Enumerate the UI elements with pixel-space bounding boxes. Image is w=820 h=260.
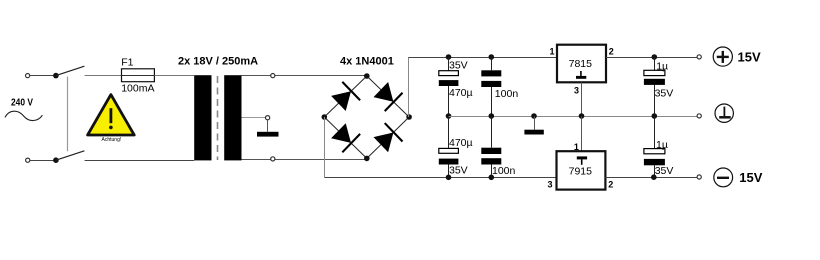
wire [654,58,656,71]
wire pin3 down [581,82,583,116]
capacitor C2 470u/35V plus plate [439,148,459,153]
svg-text:35V: 35V [655,165,674,177]
svg-text:240 V: 240 V [11,97,33,109]
bridge edge top-right [367,76,409,117]
wire pin1 7915 up [581,117,583,152]
wire [85,75,122,77]
warning triangle [88,95,135,135]
capacitor C1 minus plate [439,80,459,86]
svg-text:1: 1 [574,142,579,152]
diode D4 (bottom to right) [372,123,403,154]
wire [491,58,493,71]
node ground C5 [652,113,658,119]
bridge edge bottom-right [367,117,409,158]
wire [448,117,450,149]
wire bridge plus up [408,57,410,117]
node switch pivot top [53,73,59,79]
svg-text:35V: 35V [449,165,468,177]
switch S1b blade [56,151,85,160]
node switch pivot bottom [53,157,59,163]
node bridge bottom [364,156,370,162]
fuse F1 [122,69,155,82]
tab bar U1 [576,76,586,79]
terminal secondary top [271,74,275,78]
diode D1 (left to top) [330,82,361,113]
capacitor C6 minus plate [644,159,665,165]
diode D3 (left to bottom) [330,122,361,153]
input terminal top (L) [26,74,30,78]
wire minus rail [325,177,557,179]
svg-text:Achtung!: Achtung! [102,137,122,143]
svg-text:470µ: 470µ [449,137,473,149]
wire [654,117,656,149]
terminal center tap [266,116,270,120]
svg-text:100mA: 100mA [121,82,154,94]
diode D2 (top to right) [372,80,403,111]
capacitor C6 1u/35V plus plate [644,149,665,154]
svg-text:100n: 100n [492,165,516,177]
node bridge left [322,114,328,120]
svg-text:7915: 7915 [569,166,593,178]
node minus rail C4 [489,175,495,181]
wire plus rail [409,57,558,59]
capacitor C4 100n plate [481,148,501,154]
capacitor C5 minus plate [644,79,665,85]
wire [491,165,493,178]
svg-text:7815: 7815 [569,58,593,70]
wire minus output [605,177,697,179]
wire [448,58,450,71]
terminal ground output [697,114,701,118]
transformer secondary winding bar [224,75,241,160]
wire plus output [606,57,697,59]
svg-text:3: 3 [574,85,579,95]
capacitor C3 100n plate [481,70,501,76]
wire [267,120,269,132]
svg-text:15V: 15V [738,49,761,64]
wire [30,75,56,77]
wire secondary bottom [242,159,367,161]
svg-text:2x 18V / 250mA: 2x 18V / 250mA [178,56,258,68]
svg-text:4x 1N4001: 4x 1N4001 [340,56,394,68]
capacitor C1 470u/35V plus plate [439,71,459,76]
wire [654,85,656,117]
svg-text:3: 3 [547,180,552,190]
regulator U2 7915 box [557,151,606,189]
node ground rail C1 [446,113,452,119]
wire [85,160,195,162]
transformer primary winding bar [194,75,211,160]
node plus rail C1 [446,54,452,60]
wire center tap [242,117,266,119]
switch linkage [67,77,69,152]
node bridge top [364,73,370,79]
wire [154,75,194,77]
svg-text:2: 2 [609,46,614,56]
terminal secondary bottom [271,157,275,161]
svg-text:100n: 100n [495,88,519,100]
capacitor C2 minus plate [439,159,459,165]
terminal plus output [697,55,701,59]
wire [491,117,493,148]
svg-text:35V: 35V [449,60,468,72]
regulator U1 7815 box [557,45,606,83]
tab bar U2 [577,156,587,159]
node ground rail C3 [489,113,495,119]
exclamation mark [110,108,113,123]
earth bar center tap [257,132,279,137]
svg-text:15V: 15V [739,170,762,185]
wire bridge minus down [324,117,326,178]
terminal minus output [697,175,701,179]
node plus C5 [652,54,658,60]
svg-text:1: 1 [549,46,554,56]
wire through fuse [122,75,155,77]
node minus C6 [651,174,657,180]
earth symbol circle [715,104,733,122]
svg-text:470µ: 470µ [449,87,473,99]
node bridge right [406,114,412,120]
svg-text:F1: F1 [121,57,133,69]
node ground rail regulators [579,113,585,119]
svg-text:1µ: 1µ [656,139,668,151]
input terminal bottom (N) [26,158,30,162]
node minus rail C2 [446,175,452,181]
plus symbol circle [713,47,732,66]
node plus rail C3 [489,54,495,60]
capacitor C5 1u/35V plus plate [644,70,665,75]
wire [448,86,450,117]
earth bar mid [524,130,543,135]
node ground rail earth [531,113,537,119]
svg-text:1µ: 1µ [656,60,668,72]
AC sine symbol [5,111,42,120]
wire secondary top [242,75,367,77]
wire [30,160,56,162]
wire [654,165,656,177]
bridge edge left-top [324,76,367,117]
wire [491,87,493,117]
transformer core dashed line [217,76,219,160]
capacitor C4 plate [481,158,501,164]
capacitor C3 plate [481,81,501,87]
bridge edge left-bottom [324,117,367,158]
wire [448,165,450,178]
wire [534,117,536,130]
minus symbol circle [714,168,733,187]
ground rail [449,116,700,118]
svg-text:35V: 35V [655,88,674,100]
svg-text:2: 2 [608,180,613,190]
switch S1a blade [56,66,85,75]
